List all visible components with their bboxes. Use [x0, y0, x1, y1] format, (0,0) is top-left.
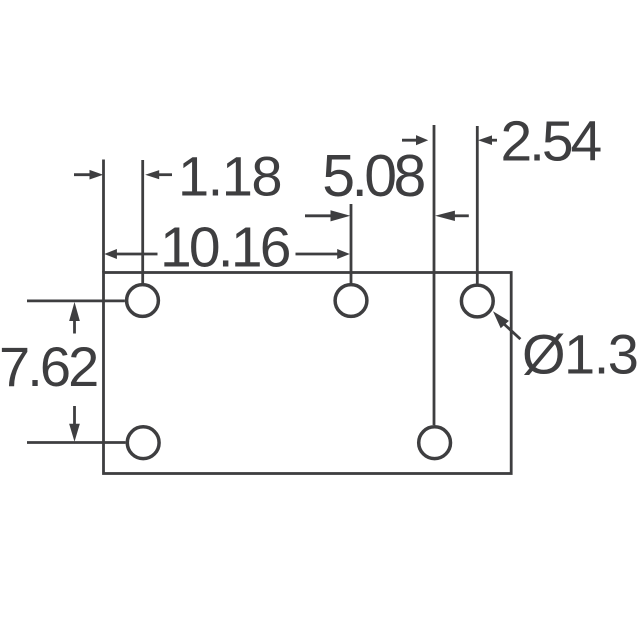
dimension 1.18 right arrow — [158, 173, 172, 176]
hole B1 bottom-left — [127, 427, 159, 459]
svg-text:2.54: 2.54 — [501, 109, 602, 173]
dimension 7.62 up arrow — [73, 320, 76, 334]
svg-text:10.16: 10.16 — [160, 216, 290, 280]
svg-text:5.08: 5.08 — [322, 143, 424, 209]
svg-text:Ø1.3: Ø1.3 — [522, 323, 637, 386]
svg-text:7.62: 7.62 — [0, 335, 97, 398]
dimension 7.62 down arrow — [73, 406, 76, 424]
extension line at left edge x=103.5 — [102, 160, 105, 273]
hole A3 top-right — [461, 285, 493, 317]
dimension 5.08 left arrow — [305, 214, 332, 217]
dimension 5.08 right arrow — [454, 214, 469, 217]
dimension 10.16 right arrow — [296, 253, 339, 256]
component outline rectangle — [104, 273, 512, 474]
extension line through hole B2 center x=434 — [433, 125, 436, 425]
leader line left lower row y=442.5 — [27, 441, 126, 444]
extension line through hole A3 center x=477.3 — [476, 126, 479, 284]
svg-text:1.18: 1.18 — [178, 145, 281, 208]
leader arrowhead pointing at hole A3 — [493, 311, 509, 328]
extension line through hole A2 center x=351 — [350, 204, 353, 283]
dimension 2.54 left arrow — [402, 139, 419, 142]
extension line through hole A1 center x=142.7 — [141, 160, 144, 283]
dimension 10.16 left arrow — [115, 253, 158, 256]
hole B2 bottom-middle — [419, 427, 451, 459]
hole A1 top-left — [127, 285, 159, 317]
dimension 1.18 left arrow — [74, 173, 91, 176]
leader line for hole diameter — [504, 324, 520, 339]
hole A2 top-middle — [335, 285, 367, 317]
leader line left upper row y=301 — [27, 299, 125, 302]
dimension 2.54 right arrow — [491, 139, 497, 142]
